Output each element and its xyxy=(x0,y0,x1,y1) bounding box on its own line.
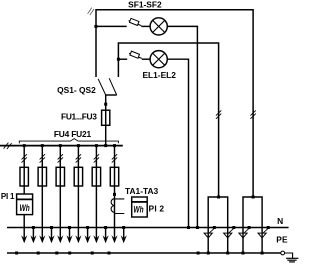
svg-text:Wh: Wh xyxy=(133,203,143,214)
label EL1-EL2 xyxy=(142,70,176,80)
svg-text:N: N xyxy=(277,216,283,226)
wire supply loop L2: top edge, right vertical to load 1 xyxy=(118,43,218,197)
label PE xyxy=(276,234,288,244)
break mark feeder 2 xyxy=(40,154,45,162)
arrow group line 1 neutral xyxy=(30,228,36,244)
break mark feeder 1 xyxy=(22,154,27,162)
wire N diagonal tap xyxy=(263,228,268,233)
wire lighting branch 2 xyxy=(118,58,127,60)
arrow group line 2 neutral xyxy=(48,228,54,244)
wire feeder 2 xyxy=(41,146,43,240)
wire EL1 to N xyxy=(167,26,197,227)
wire feeder 1 xyxy=(23,146,25,240)
fuse feeder 5 xyxy=(92,167,100,186)
node PE connection load group 1 xyxy=(207,252,210,255)
lamp EL1 xyxy=(150,18,167,35)
wire N diagonal tap xyxy=(244,228,249,233)
wire SF2 to EL2 xyxy=(142,58,150,60)
node EL2 return on N xyxy=(187,226,190,229)
disconnector QS1-QS2 blades xyxy=(98,78,117,95)
meter PI1 xyxy=(17,194,33,215)
PE terminal circle xyxy=(281,251,285,255)
meter PI2 xyxy=(132,197,148,217)
fuse feeder 6 xyxy=(110,167,118,186)
arrow group line 2 phase xyxy=(39,235,45,243)
svg-text:Wh: Wh xyxy=(20,202,30,213)
load group 1 outline xyxy=(208,197,228,253)
nodes on PE bus xyxy=(15,252,200,255)
svg-text:EL1-EL2: EL1-EL2 xyxy=(142,70,176,80)
node PE connection load group 2 xyxy=(242,252,245,255)
node EL1 return on N xyxy=(196,226,199,229)
current transformer TA1-TA3 xyxy=(111,199,124,214)
node N tap group 6 xyxy=(122,226,125,229)
wire N diagonal tap xyxy=(229,228,234,233)
node N tap load group 1 xyxy=(213,226,216,229)
label QS1-QS2 xyxy=(57,85,96,95)
N bus xyxy=(7,227,289,229)
arrow group line 1 phase xyxy=(21,235,27,243)
label FU4 FU21 xyxy=(54,129,92,139)
arrow outgoing line load group 1 xyxy=(224,233,232,238)
svg-text:FU4 FU21: FU4 FU21 xyxy=(54,129,92,139)
node feed load group 2 xyxy=(252,196,255,199)
wire feeder 4 xyxy=(77,146,79,240)
node N tap group 5 xyxy=(104,226,107,229)
load group 2 outline xyxy=(243,197,262,253)
svg-text:FU1...FU3: FU1...FU3 xyxy=(61,112,97,122)
break mark feeder 5 xyxy=(94,154,99,162)
wire feeder 6 xyxy=(114,146,116,240)
break mark feeder 6 xyxy=(112,154,117,162)
svg-text:PI 2: PI 2 xyxy=(149,203,165,213)
node feed load group 1 xyxy=(217,196,220,199)
node feeder 5 on bus xyxy=(95,144,98,147)
ground xyxy=(285,253,299,262)
fuse feeder 1 xyxy=(20,167,28,186)
node below QS xyxy=(104,103,107,106)
circuit breaker SF2 xyxy=(129,51,142,58)
node N tap group 3 xyxy=(68,226,71,229)
node PE connection load group 2 xyxy=(261,252,264,255)
arrow group line 3 phase xyxy=(57,235,63,243)
label N xyxy=(277,216,283,226)
node N tap load group 2 xyxy=(248,226,251,229)
node above CT xyxy=(113,193,116,196)
wire EL2 to N xyxy=(167,59,188,227)
arrow group line 6 phase xyxy=(111,235,117,243)
break mark feeder 3 xyxy=(58,154,63,162)
wire SF1 to EL1 xyxy=(141,25,150,27)
svg-text:PI 1: PI 1 xyxy=(1,192,15,201)
arrow group line 4 neutral xyxy=(85,228,91,244)
node main drop on bus xyxy=(104,144,107,147)
circuit breaker SF1 xyxy=(129,18,142,25)
fuse FU1...FU3 xyxy=(102,110,110,125)
label PI1 xyxy=(1,192,15,201)
label PI2 xyxy=(149,203,165,213)
fuse feeder 3 xyxy=(56,167,64,186)
wire feeder 5 xyxy=(95,146,97,240)
bus distribution board xyxy=(0,145,123,147)
node N tap group 4 xyxy=(86,226,89,229)
arrow outgoing line load group 1 xyxy=(204,233,212,238)
lamp EL2 xyxy=(150,51,167,68)
arrow group line 6 neutral xyxy=(121,228,127,244)
arrow outgoing line load group 2 xyxy=(239,233,247,238)
node N tap load group 1 xyxy=(232,226,235,229)
break mark on wire to load 2 xyxy=(250,110,255,118)
node feeder 4 on bus xyxy=(77,144,80,147)
svg-text:PE: PE xyxy=(276,234,288,244)
label FU1...FU3 xyxy=(61,112,97,122)
arrow group line 5 neutral xyxy=(103,228,109,244)
PE bus xyxy=(7,252,281,254)
svg-text:SF1-SF2: SF1-SF2 xyxy=(128,0,162,9)
fuse feeder 4 xyxy=(74,167,82,186)
arrow outgoing line load group 2 xyxy=(258,233,266,238)
wire lighting branch 1 xyxy=(96,25,127,27)
node tap of lighting branch 2 xyxy=(117,58,120,61)
node N tap group 2 xyxy=(50,226,53,229)
node tap of lighting branch 1 xyxy=(94,25,97,28)
svg-text:TA1-TA3: TA1-TA3 xyxy=(125,186,159,196)
brace fuse group FU4...FU21 xyxy=(19,139,118,144)
break mark feeder 4 xyxy=(76,154,81,162)
wire supply loop L1: top edge and left/right verticals xyxy=(96,10,253,197)
node feeder 3 on bus xyxy=(59,144,62,147)
node feeder 2 on bus xyxy=(41,144,44,147)
break mark on wire to load 1 xyxy=(216,110,221,118)
svg-text:QS1- QS2: QS1- QS2 xyxy=(57,85,96,95)
arrow group line 5 phase xyxy=(93,235,99,243)
node N tap group 1 xyxy=(32,226,35,229)
label TA1-TA3 xyxy=(125,186,159,196)
node N tap load group 2 xyxy=(267,226,270,229)
wire QS output xyxy=(105,95,107,146)
wire N diagonal tap xyxy=(209,228,214,233)
label SF1-SF2 xyxy=(128,0,162,9)
arrow group line 3 neutral xyxy=(66,228,72,244)
node feeder 6 on bus xyxy=(113,144,116,147)
wire feeder 3 xyxy=(59,146,61,240)
fuse feeder 2 xyxy=(38,167,46,186)
node feeder 1 on bus xyxy=(23,144,26,147)
node PE connection load group 1 xyxy=(226,252,229,255)
arrow group line 4 phase xyxy=(75,235,81,243)
break mark supply entry xyxy=(88,8,94,16)
break mark bus left end xyxy=(4,143,12,150)
